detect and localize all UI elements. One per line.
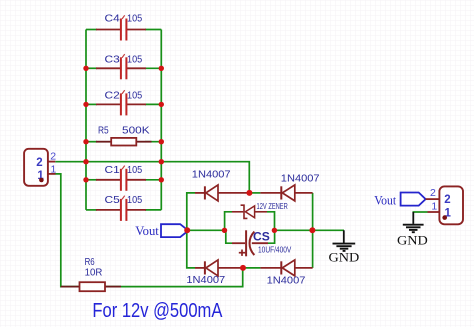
- junction dots cap bank: [83, 66, 164, 183]
- svg-text:1N4007: 1N4007: [267, 275, 306, 287]
- svg-text:1N4007: 1N4007: [281, 173, 320, 185]
- wire middle row left (Vout to zener node): [187, 229, 225, 231]
- wire C5 row: [86, 209, 97, 211]
- diode D1 (top-left 1N4007): [192, 169, 250, 201]
- svg-text:105: 105: [127, 89, 142, 101]
- svg-text:105: 105: [127, 53, 142, 65]
- net flag Vout (right): [374, 192, 425, 207]
- diode D2 (top-right 1N4007): [260, 173, 319, 201]
- svg-text:C5: C5: [105, 194, 120, 206]
- junction dots bridge: [184, 190, 315, 271]
- wire C2 row: [86, 103, 97, 105]
- wire top diode stub green: [249, 192, 260, 194]
- svg-text:500K: 500K: [122, 125, 150, 137]
- wire zener loop: [225, 212, 232, 231]
- capacitor CS (electrolytic 10UF/400V): [232, 230, 292, 257]
- wire C4 row: [86, 29, 97, 31]
- resistor R5: [96, 125, 152, 146]
- wire middle row right (cap node to right rail): [274, 229, 312, 231]
- resistor R6: [61, 256, 121, 291]
- svg-text:10UF/400V: 10UF/400V: [258, 245, 292, 254]
- wire right rail of cap bank: [160, 30, 162, 210]
- zener diode 12V: [232, 202, 288, 218]
- svg-text:R5: R5: [98, 125, 109, 137]
- connector P2 (right): [430, 186, 463, 224]
- wire connector pin1 to gnd: [413, 211, 441, 213]
- svg-text:1: 1: [431, 201, 437, 213]
- svg-text:105: 105: [127, 12, 142, 24]
- diode D3 (bottom-left 1N4007): [186, 260, 243, 286]
- wire CS loop left: [226, 230, 232, 243]
- svg-text:10R: 10R: [85, 267, 103, 279]
- wire bottom diode stub green: [243, 267, 260, 269]
- svg-text:1: 1: [51, 163, 57, 175]
- svg-text:1N4007: 1N4007: [192, 169, 231, 181]
- capacitor C5: [96, 194, 146, 221]
- svg-text:C4: C4: [105, 12, 120, 24]
- svg-text:Vout: Vout: [135, 223, 159, 238]
- capacitor C4: [96, 12, 146, 40]
- wire pin1 down and bottom row to bridge: [55, 174, 242, 287]
- wire zener loop right: [267, 212, 275, 231]
- net flag Vout (left): [135, 223, 188, 238]
- wire gnd branch: [313, 229, 344, 231]
- svg-text:C1: C1: [105, 164, 120, 176]
- wire C3 row: [86, 67, 97, 69]
- svg-text:C3: C3: [105, 53, 120, 65]
- wire flag to connector pin2: [426, 198, 441, 200]
- wire bridge right rail: [312, 193, 314, 268]
- svg-text:12V ZENER: 12V ZENER: [257, 202, 288, 211]
- svg-text:C2: C2: [105, 89, 120, 101]
- svg-text:105: 105: [127, 164, 142, 176]
- ground symbol (bridge): [329, 230, 360, 264]
- diode D4 (bottom-right 1N4007): [260, 260, 312, 287]
- wire CS loop right: [268, 230, 275, 243]
- svg-text:CS: CS: [253, 230, 270, 244]
- wire pin2 row to bridge: [55, 162, 249, 193]
- wire C1 row: [86, 179, 97, 181]
- svg-text:105: 105: [127, 194, 142, 206]
- wire R5 row: [86, 141, 97, 143]
- capacitor C1: [96, 164, 146, 191]
- svg-text:Vout: Vout: [374, 192, 396, 207]
- svg-text:GND: GND: [397, 232, 428, 247]
- svg-text:GND: GND: [329, 250, 360, 265]
- svg-text:2: 2: [50, 151, 56, 163]
- ground symbol (output): [397, 212, 428, 247]
- svg-text:1N4007: 1N4007: [186, 274, 225, 286]
- wire left rail: [85, 30, 87, 210]
- svg-text:For 12v @500mA: For 12v @500mA: [92, 300, 223, 322]
- svg-text:2: 2: [430, 187, 436, 199]
- connector P1 (left): [24, 149, 56, 186]
- svg-text:2: 2: [36, 157, 42, 169]
- capacitor C2: [96, 89, 146, 115]
- svg-text:2: 2: [444, 194, 450, 206]
- wire bridge left rail (Vout column): [187, 193, 195, 268]
- capacitor C3: [96, 53, 146, 79]
